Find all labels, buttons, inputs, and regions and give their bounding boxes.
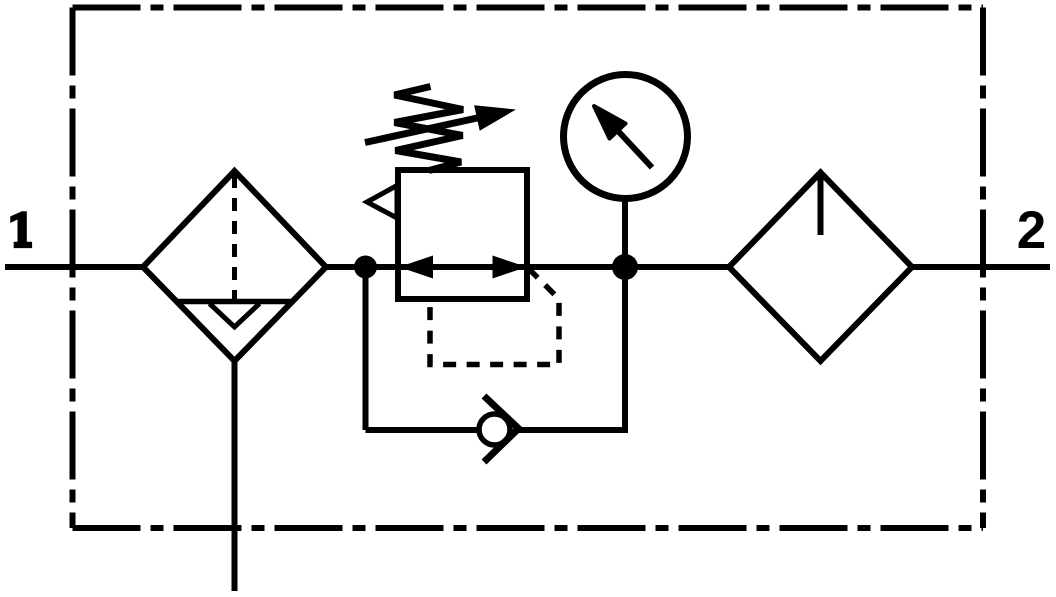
- regulator R1 pilot line (dashed): [430, 269, 559, 365]
- enclosure border bottom edge (dash-dot): [73, 525, 984, 531]
- wire: bypass right vertical branch: [622, 267, 628, 430]
- regulator R1 adjustment arrow shaft: [365, 113, 500, 143]
- wire: bypass lower left horizontal: [366, 427, 481, 433]
- port label 1: [10, 211, 32, 248]
- lubricator L1 body (diamond): [729, 173, 912, 362]
- regulator R1 left flow arrowhead: [399, 256, 433, 279]
- wire: port 2 outlet line: [912, 264, 1050, 270]
- wire: filter drain line: [232, 361, 238, 591]
- wire: main line filter to right diamond: [326, 264, 729, 270]
- filter F1 condensate triangle: [210, 304, 260, 328]
- pressure gauge G1 needle shaft: [619, 132, 652, 168]
- enclosure border top edge (dash-dot): [73, 5, 984, 11]
- lubricator L1 drip line: [818, 173, 824, 236]
- node B (junction dot at gauge stem): [612, 254, 638, 280]
- enclosure border right edge (dash-dot): [980, 8, 986, 529]
- check valve V1 seat (V lines): [484, 396, 519, 462]
- filter F1 body (diamond, filter with water separator): [143, 171, 326, 361]
- wire: bypass lower right horizontal: [518, 427, 628, 433]
- pressure gauge G1 needle arrowhead: [594, 106, 626, 139]
- enclosure border left edge (dash-dot): [70, 8, 76, 529]
- filter F1 element (dashed vertical line): [232, 175, 237, 299]
- wire: gauge stem: [622, 198, 628, 267]
- check valve V1 ball (circle): [479, 414, 510, 445]
- regulator R1 body (square): [398, 170, 527, 299]
- regulator R1 adjustment spring (zigzag): [395, 87, 464, 171]
- wire: bypass left vertical branch: [363, 267, 369, 430]
- wire: port 1 inlet line: [5, 264, 143, 270]
- pressure gauge G1 dial (circle): [564, 75, 688, 199]
- regulator R1 right flow arrowhead: [493, 256, 527, 279]
- regulator R1 adjustment arrowhead: [474, 105, 516, 130]
- filter F1 separator chord line: [177, 299, 292, 305]
- svg-text:2: 2: [1017, 201, 1046, 260]
- node A (junction dot after filter): [354, 256, 377, 279]
- regulator R1 relief vent triangle: [367, 186, 397, 219]
